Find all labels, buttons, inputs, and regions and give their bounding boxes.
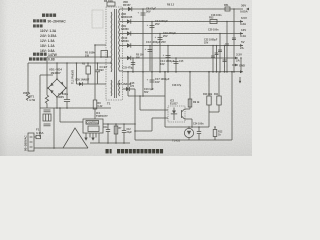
- capacitor C21: [132, 58, 134, 72]
- capacitor C24: [198, 127, 200, 132]
- startup resistor R1: [101, 51, 108, 58]
- common-mode choke L1: [43, 114, 51, 121]
- IC1 controller box: [83, 119, 103, 133]
- spec line: total power: [33, 53, 47, 56]
- fuse F1: [34, 136, 36, 138]
- rectifier VD8: [127, 19, 131, 23]
- divider resistor R10: [208, 72, 210, 96]
- right grid vertical x=220: [219, 34, 221, 72]
- aux VCC vertical wire: [134, 89, 136, 140]
- capacitor C8: [142, 9, 144, 72]
- VCC rail wire: [103, 123, 135, 125]
- rail A wire 110V: [123, 8, 244, 10]
- rail A arrow: [246, 8, 249, 11]
- rail B arrow: [240, 20, 243, 23]
- capacitor C19: [127, 72, 129, 96]
- rail E wire 3.3V: [123, 57, 239, 59]
- varistor RV1: [27, 63, 29, 92]
- rectifier VD11: [127, 56, 131, 60]
- wire to optocoupler anode: [140, 109, 168, 111]
- capacitor C13: [149, 46, 151, 72]
- faint pcb box: [92, 10, 103, 28]
- IC1 left pin wire: [60, 121, 83, 123]
- ground symbol 2: [91, 138, 94, 141]
- wire fuse to filter: [39, 136, 42, 138]
- primary drain wire to IC: [95, 44, 106, 46]
- rail D arrow: [240, 44, 243, 47]
- IC1 bottom pins: [85, 133, 87, 138]
- ferrite bead FB1 on rail A: [225, 7, 230, 11]
- capacitor C10: [159, 34, 161, 72]
- bulk capacitor C4: [66, 63, 68, 100]
- rail D wire 5V: [123, 45, 244, 47]
- snubber R6 on top: [107, 2, 115, 6]
- opto collector wire: [185, 108, 191, 110]
- sense resistor R4: [93, 100, 97, 109]
- opto cathode wire: [152, 117, 168, 119]
- capacitor C17 below bus: [151, 72, 153, 90]
- paper background: [0, 0, 252, 156]
- divider resistor R11: [218, 72, 220, 96]
- transformer secondary winding: [118, 9, 121, 71]
- heatsink triangle: [63, 128, 88, 148]
- rectifier VD9: [127, 31, 131, 35]
- clamp left leg: [76, 63, 78, 84]
- right grid vertical x=213: [212, 46, 214, 72]
- feedback return wire: [135, 139, 232, 141]
- ground symbol 1: [84, 138, 87, 141]
- line filter right leg: [53, 108, 55, 148]
- TL431 IC3: [184, 128, 193, 137]
- spec line: efficiency: [29, 57, 46, 60]
- capacitor C14: [167, 46, 169, 72]
- rectifier VD10: [127, 43, 131, 47]
- HV+ rail: [28, 62, 111, 64]
- bridge DC- wire: [56, 97, 58, 108]
- return arrow below bus: [239, 77, 241, 82]
- feedback bus wire: [165, 126, 209, 128]
- primary ground bus: [40, 107, 111, 109]
- right grid vertical x=234: [233, 9, 235, 72]
- X-capacitor C2: [44, 123, 51, 125]
- bottom wire under IC: [90, 142, 130, 144]
- optocoupler IC2 dashed box: [168, 106, 185, 122]
- thermistor RT1: [45, 95, 48, 103]
- clamp diode VD5: [77, 83, 107, 85]
- capacitor C15: [175, 58, 177, 72]
- spec line: input voltage: [33, 19, 46, 22]
- capacitor C9: [151, 22, 153, 72]
- transformer secondary lower winding: [118, 80, 121, 96]
- earth wire along bottom: [34, 147, 88, 149]
- rail B wire 24V: [123, 21, 244, 23]
- AC inlet connector J1: [28, 133, 34, 151]
- right grid vertical x=241: [240, 58, 242, 72]
- bridge rectifier VD1~VD4: [48, 79, 66, 97]
- spec text block header: [42, 14, 56, 17]
- transformer aux winding left lower: [110, 80, 113, 96]
- resistor R7: [115, 124, 117, 143]
- IC1 control strip: [86, 121, 99, 125]
- startup rail wire: [47, 56, 111, 58]
- optocoupler transistor: [181, 110, 183, 118]
- polarity plus marks: [138, 12, 165, 82]
- clamp resistor R2: [87, 63, 89, 66]
- secondary tap stubs: [120, 8, 123, 10]
- capacitor C22 leg: [216, 46, 218, 72]
- resistor R12: [214, 127, 216, 130]
- rail E arrow: [235, 57, 238, 60]
- clamp capacitor C3: [97, 63, 99, 70]
- spec line: outputs: [33, 24, 43, 27]
- GND arrow: [232, 64, 238, 66]
- feedback wires below bus: [142, 72, 144, 96]
- IC1 inner block: [88, 126, 99, 132]
- optocoupler LED: [172, 111, 176, 114]
- sense wire from ground bus: [231, 72, 233, 140]
- wire AC2 to bridge: [39, 75, 41, 108]
- VCC capacitor C11: [107, 124, 109, 130]
- bridge DC+ wire: [56, 63, 58, 79]
- line filter left leg: [39, 108, 41, 137]
- secondary ground bus: [123, 71, 244, 73]
- transformer core: [113, 9, 115, 98]
- X-capacitor C1: [44, 109, 51, 111]
- transformer primary winding: [110, 12, 113, 72]
- opto emitter wire: [185, 118, 193, 120]
- rail C arrow: [240, 32, 243, 35]
- transformer T1 shield dashed box: [106, 7, 123, 100]
- caption text blobs: [106, 149, 164, 153]
- capacitor C23 leg: [224, 46, 226, 72]
- aux rectifier VD7: [123, 88, 127, 90]
- ferrite bead FB2 on rail B: [210, 20, 217, 24]
- resistor R9: [188, 99, 192, 107]
- right grid vertical x=227: [226, 22, 228, 72]
- rail C wire 12V: [123, 33, 244, 35]
- rectifier VD6: [128, 7, 132, 11]
- VCC capacitor C12: [123, 124, 125, 131]
